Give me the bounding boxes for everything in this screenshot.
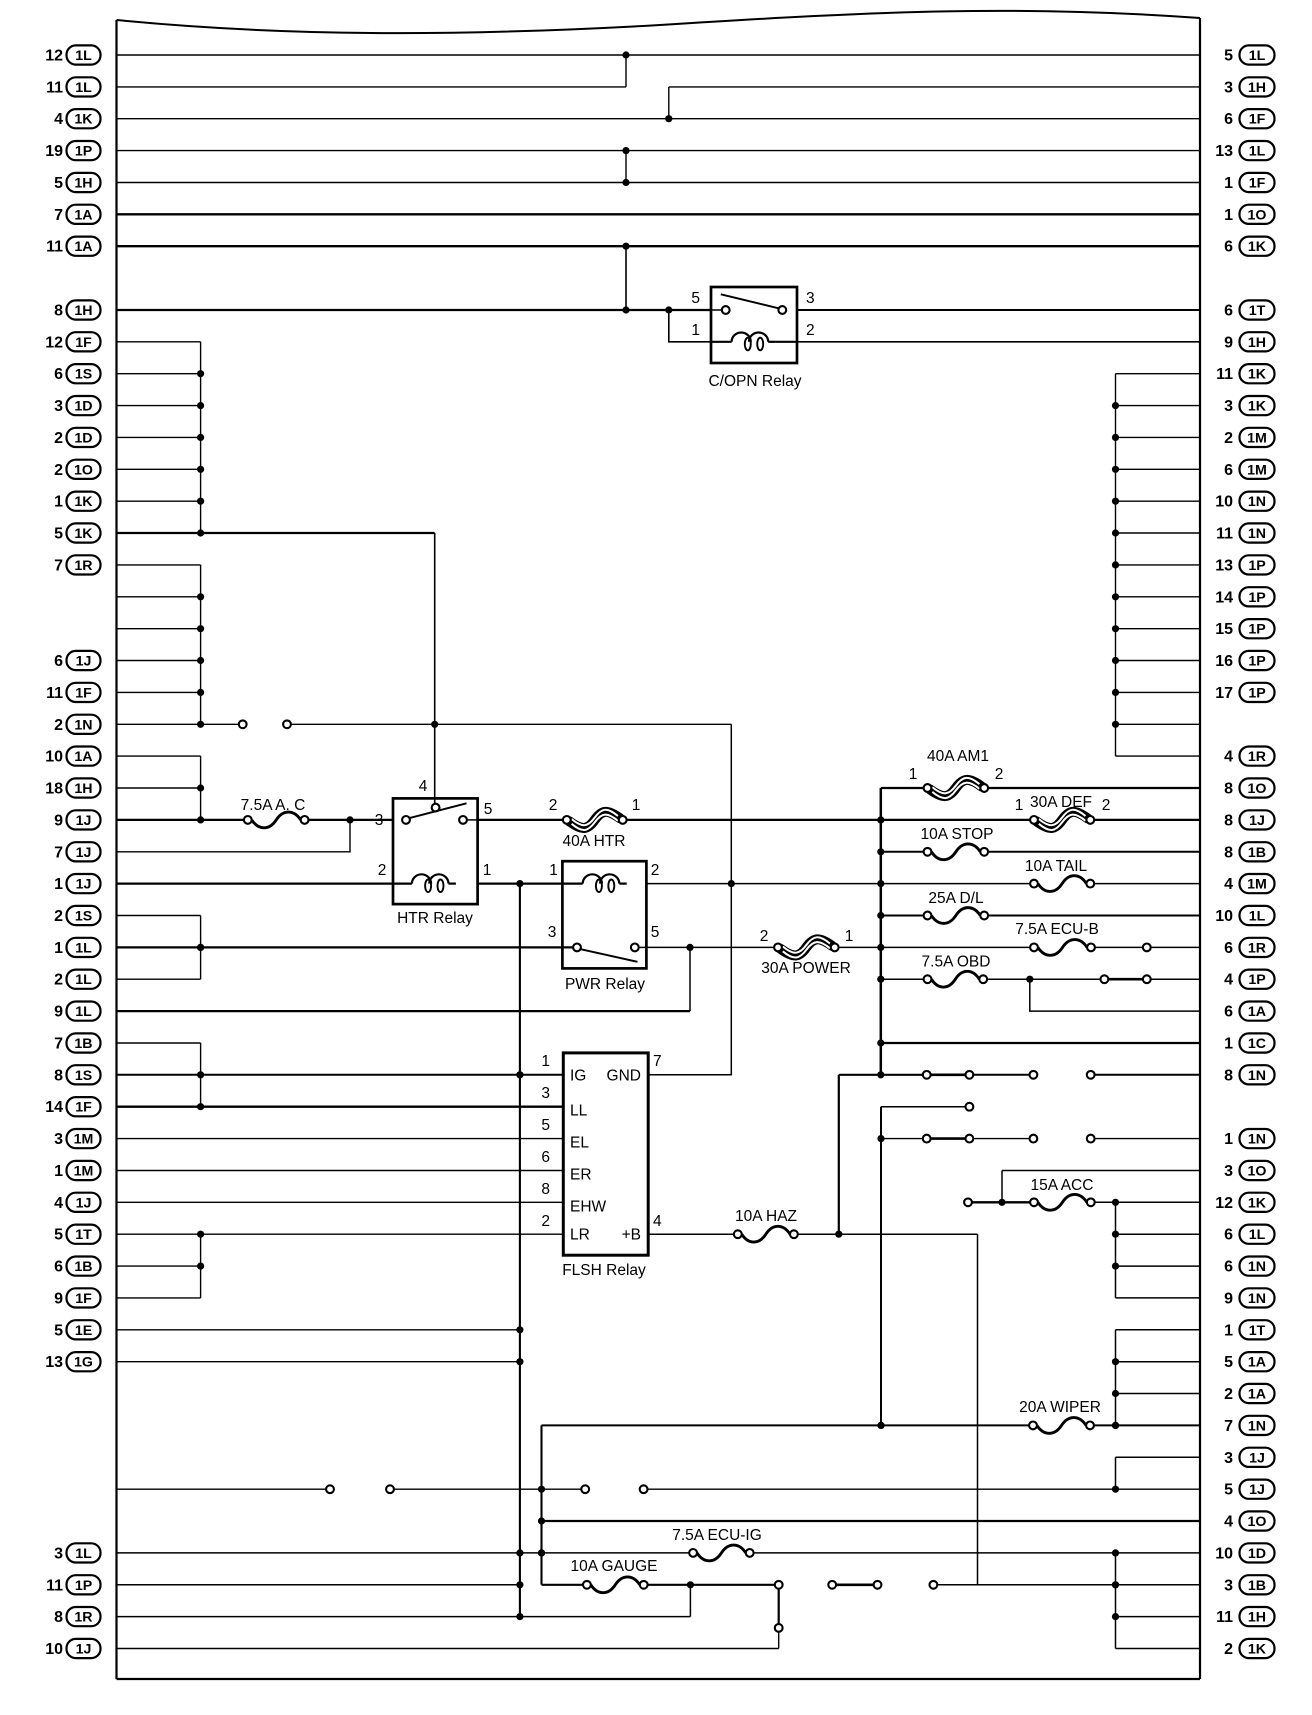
svg-text:2: 2 <box>54 717 63 734</box>
svg-text:3: 3 <box>541 1085 550 1102</box>
wire row 5(1K) to HTR relay pin 4 corner <box>117 532 435 534</box>
node 4(1O) right connector <box>1224 1511 1274 1530</box>
svg-text:1: 1 <box>541 1053 550 1070</box>
wire power bus vertical (40A AM1 feed) <box>877 788 884 1078</box>
node 11(1K) right connector <box>1216 364 1274 383</box>
wire row 3(1B) right segment <box>930 1581 1201 1589</box>
svg-text:10: 10 <box>1215 494 1233 511</box>
svg-text:LL: LL <box>570 1103 588 1120</box>
wire row 11(1K) corner <box>1116 373 1201 375</box>
svg-text:5: 5 <box>691 290 700 307</box>
node 14(1P) right connector <box>1215 587 1274 606</box>
svg-text:1: 1 <box>845 928 854 945</box>
node 11(1F) left connector <box>46 683 100 702</box>
wire 40A AM1 row corner <box>881 787 925 789</box>
node 3(1D) left connector <box>54 396 100 415</box>
svg-text:3: 3 <box>548 924 557 941</box>
node 7(1A) left connector <box>54 205 100 224</box>
label 30A POWER pin 1 <box>845 928 854 945</box>
wire row 3(1M) to FLSH EL <box>117 1138 564 1140</box>
svg-text:1T: 1T <box>1249 303 1266 319</box>
wire relay-coil bus vertical (IG feed) <box>516 884 523 1621</box>
svg-text:10: 10 <box>45 1641 63 1658</box>
svg-text:2: 2 <box>54 430 63 447</box>
node 5(1A) right connector <box>1224 1352 1274 1371</box>
svg-text:13: 13 <box>45 1354 63 1371</box>
svg-text:11: 11 <box>1216 366 1233 383</box>
svg-text:7: 7 <box>54 1036 63 1053</box>
svg-text:1D: 1D <box>74 399 92 415</box>
svg-text:10: 10 <box>45 749 63 766</box>
svg-text:40A AM1: 40A AM1 <box>927 748 989 765</box>
wire row 10(1A) to bus C <box>117 755 201 757</box>
wire vertical 3(1H) down to 4(1K) row <box>668 87 670 119</box>
svg-text:2: 2 <box>760 928 769 945</box>
fuse 40A HTR (fusible link) <box>563 810 627 850</box>
svg-text:30A DEF: 30A DEF <box>1030 794 1092 811</box>
label HTR pin 5 <box>484 801 493 818</box>
wire row unlabeled-2 to bus B <box>117 628 201 630</box>
wire row right 16(1P) <box>1116 660 1201 662</box>
svg-text:20A WIPER: 20A WIPER <box>1019 1399 1101 1416</box>
svg-text:1M: 1M <box>1247 877 1267 893</box>
wire HTR pin5 inside box <box>467 819 478 821</box>
node 6(1K) right connector <box>1224 237 1274 256</box>
svg-text:3: 3 <box>54 1131 63 1148</box>
wire bus D vertical 2(1S)..2(1L) <box>197 916 204 980</box>
wire row 4(1R) corner <box>1116 755 1201 757</box>
wire row 8(1R) <box>117 1616 691 1618</box>
node 8(1O) right connector <box>1224 778 1274 797</box>
fuse 30A DEF (fusible link) <box>1030 794 1094 830</box>
node 10(1J) left connector <box>45 1639 100 1658</box>
fuse 7.5A ECU-B <box>1015 921 1099 955</box>
wire C/OPN pin5 stub <box>711 309 722 311</box>
svg-text:1H: 1H <box>1248 335 1266 351</box>
wire PWR pin 2 to 10A TAIL row <box>646 880 1030 887</box>
svg-text:1H: 1H <box>1248 80 1266 96</box>
label FLSH pin 6 <box>541 1149 550 1166</box>
node 11(1P) left connector <box>46 1575 100 1594</box>
svg-text:5: 5 <box>484 801 493 818</box>
svg-text:5: 5 <box>541 1117 550 1134</box>
wire row 1(1N) segment with connectors <box>881 1135 1200 1143</box>
node 2(1N) left connector <box>54 715 100 734</box>
label FLSH pin 3 <box>541 1085 550 1102</box>
node 10(1A) left connector <box>45 747 100 766</box>
node 8(1H) left connector <box>54 300 100 319</box>
wire row right 13(1P) <box>1116 564 1201 566</box>
svg-text:1D: 1D <box>74 430 92 446</box>
label PWR pin 3 <box>548 924 557 941</box>
svg-text:8: 8 <box>1224 844 1233 861</box>
node 8(1R) left connector <box>54 1607 100 1626</box>
svg-text:2: 2 <box>995 766 1004 783</box>
svg-text:5: 5 <box>54 1322 63 1339</box>
svg-text:1M: 1M <box>1247 430 1267 446</box>
svg-text:11: 11 <box>1216 1609 1233 1626</box>
wire row 1(1C) <box>881 1042 1200 1044</box>
svg-text:1P: 1P <box>1248 622 1265 638</box>
wire FLSH +B to fuse 10A HAZ <box>648 1233 734 1235</box>
label 40A AM1 pin 1 <box>909 766 918 783</box>
svg-text:+B: +B <box>622 1227 641 1244</box>
relay HTR switch blade <box>409 803 467 818</box>
label 40A HTR pin 1 <box>632 797 641 814</box>
svg-text:8: 8 <box>54 1609 63 1626</box>
wire row 5(1A) <box>1116 1361 1201 1363</box>
wire fuse 25A D/L to 10(1L) <box>988 915 1200 917</box>
svg-text:7.5A OBD: 7.5A OBD <box>922 954 991 971</box>
svg-text:3: 3 <box>54 398 63 415</box>
svg-text:7: 7 <box>54 844 63 861</box>
wire row unlabeled-1 to bus B <box>117 596 201 598</box>
relay PWR (box) <box>562 861 646 968</box>
node 5(1L) right connector <box>1224 45 1274 64</box>
svg-text:1B: 1B <box>1248 845 1266 861</box>
node 6(1M) right connector <box>1224 460 1274 479</box>
relay PWR switch blade <box>580 949 638 962</box>
relay PWR pin 5 contact <box>631 944 639 952</box>
relay C/OPN pin 5 contact <box>722 306 730 314</box>
label PWR Relay name <box>565 976 645 993</box>
node 2(1K) right connector <box>1224 1639 1274 1658</box>
svg-text:1J: 1J <box>1249 1450 1265 1466</box>
wire fuse OBD to 4(1P) with connector pair <box>987 975 1200 983</box>
svg-text:1K: 1K <box>1248 367 1267 383</box>
svg-text:1J: 1J <box>76 877 92 893</box>
node 2(1D) left connector <box>54 428 100 447</box>
svg-text:1F: 1F <box>1249 176 1266 192</box>
svg-text:1A: 1A <box>1248 1355 1266 1371</box>
wire row 14(1F) to FLSH LL <box>117 1106 564 1108</box>
svg-text:2: 2 <box>54 908 63 925</box>
svg-text:9: 9 <box>1224 334 1233 351</box>
junction-block border (left edge) <box>115 20 117 1679</box>
node 1(1N) right connector <box>1224 1129 1274 1148</box>
wire vertical ACC branch 12(1K)..9(1N) <box>1112 1202 1119 1298</box>
svg-text:6: 6 <box>1224 1004 1233 1021</box>
node 12(1F) left connector <box>45 332 100 351</box>
svg-text:1O: 1O <box>1248 1514 1267 1530</box>
svg-text:1S: 1S <box>75 909 92 925</box>
svg-text:1L: 1L <box>1249 48 1266 64</box>
node 1(1J) left connector <box>54 874 100 893</box>
node 4(1J) left connector <box>54 1193 100 1212</box>
svg-text:1N: 1N <box>74 717 92 733</box>
svg-text:1: 1 <box>1224 1322 1233 1339</box>
wire row 11(1A)-6(1K) <box>117 243 1201 250</box>
svg-text:1N: 1N <box>1248 1291 1266 1307</box>
wire HAZ net vertical down to 3(1B) row <box>977 1234 979 1585</box>
label FLSH pin 1 <box>541 1053 550 1070</box>
svg-text:4: 4 <box>1224 749 1233 766</box>
svg-text:1P: 1P <box>1248 558 1265 574</box>
node 6(1N) right connector <box>1224 1257 1274 1276</box>
node 12(1L) left connector <box>45 45 100 64</box>
wire row right 3(1K) <box>1116 405 1201 407</box>
svg-text:6: 6 <box>54 366 63 383</box>
label C/OPN pin 1 <box>691 322 700 339</box>
wire row right 11(1N) <box>1116 532 1201 534</box>
svg-text:1P: 1P <box>1248 685 1265 701</box>
wire vertical 3(1J) to 5(1J) <box>1115 1457 1117 1489</box>
wire row 4(1K)-6(1F) <box>117 115 1201 122</box>
relay PWR coil <box>562 874 626 892</box>
wire IG-branch vertical WIPER..GAUGE <box>538 1425 545 1584</box>
svg-text:5: 5 <box>54 1227 63 1244</box>
wire 6(1A) feed vertical <box>1030 979 1200 1011</box>
svg-text:ER: ER <box>570 1167 592 1184</box>
node 6(1A) right connector <box>1224 1002 1274 1021</box>
svg-text:1A: 1A <box>74 207 92 223</box>
wire fuse 40A AM1 to 8(1O) <box>987 787 1200 789</box>
svg-text:10A STOP: 10A STOP <box>921 826 994 843</box>
wire bus B vertical 7(1R)..2(1N) <box>197 565 204 728</box>
svg-text:19: 19 <box>45 143 63 160</box>
node 7(1R) left connector <box>54 555 100 574</box>
label FLSH pin 5 <box>541 1117 550 1134</box>
svg-text:7.5A ECU-IG: 7.5A ECU-IG <box>672 1527 762 1544</box>
fuse 30A POWER (fusible link) <box>761 937 851 977</box>
node 6(1L) right connector <box>1224 1225 1274 1244</box>
svg-text:4: 4 <box>1224 1514 1233 1531</box>
svg-text:1N: 1N <box>1248 494 1266 510</box>
svg-text:5: 5 <box>1224 48 1233 65</box>
wire row right 6(1M) <box>1116 468 1201 470</box>
svg-text:1K: 1K <box>1248 399 1267 415</box>
svg-text:1J: 1J <box>76 845 92 861</box>
node 2(1S) left connector <box>54 906 100 925</box>
wire row 7(1J) up to 9(1J) row <box>117 820 351 852</box>
svg-text:16: 16 <box>1215 653 1233 670</box>
svg-text:IG: IG <box>570 1067 586 1084</box>
wire fuse 30A POWER to ECU-B fuse <box>838 944 1030 951</box>
wire row 3(1J) corner <box>1116 1456 1201 1458</box>
wire row 6(1S) to bus A <box>117 373 201 375</box>
fuse 15A ACC <box>1030 1177 1095 1210</box>
node 9(1H) right connector <box>1224 332 1274 351</box>
svg-text:1P: 1P <box>1248 972 1265 988</box>
wire row 3(1L)-10(1D) with fuse ECU-IG <box>117 1549 690 1556</box>
node 6(1F) right connector <box>1224 109 1274 128</box>
node 7(1B) left connector <box>54 1033 100 1052</box>
svg-text:1O: 1O <box>1248 207 1267 223</box>
svg-text:5: 5 <box>651 924 660 941</box>
label PWR pin 2 <box>651 862 660 879</box>
wire row 3(1D) to bus A <box>117 405 201 407</box>
node 11(1L) left connector <box>46 77 100 96</box>
wire row right 14(1P) <box>1116 596 1201 598</box>
wire row 3(1H) from junction <box>669 86 1200 88</box>
svg-text:1N: 1N <box>1248 1132 1266 1148</box>
wire vertical 1(1N) bus <box>877 1107 884 1429</box>
svg-text:1P: 1P <box>75 1578 92 1594</box>
svg-text:1: 1 <box>1224 207 1233 224</box>
svg-text:1P: 1P <box>75 144 92 160</box>
svg-text:1L: 1L <box>75 1546 92 1562</box>
wire row 5(1E) to coil bus <box>117 1329 520 1331</box>
svg-text:6: 6 <box>1224 303 1233 320</box>
svg-text:1F: 1F <box>75 335 92 351</box>
node 6(1J) left connector <box>54 651 100 670</box>
node 8(1B) right connector <box>1224 842 1274 861</box>
junction-block border (right edge) <box>1199 18 1201 1679</box>
wire ground vertical 2(1N) row to FLSH GND <box>648 724 735 1075</box>
node 1(1M) left connector <box>54 1161 100 1180</box>
svg-text:10: 10 <box>1215 1545 1233 1562</box>
node 4(1K) left connector <box>54 109 100 128</box>
svg-text:1H: 1H <box>74 303 92 319</box>
svg-text:GND: GND <box>607 1067 641 1084</box>
wire row 12(1L)-5(1L) <box>117 51 1201 58</box>
fuse 7.5A A. C <box>241 797 309 828</box>
label HTR pin 3 <box>375 812 384 829</box>
svg-text:8: 8 <box>1224 812 1233 829</box>
svg-text:2: 2 <box>54 462 63 479</box>
svg-text:1K: 1K <box>1248 1195 1267 1211</box>
label FLSH EL <box>570 1135 589 1152</box>
fuse 20A WIPER <box>1019 1399 1101 1433</box>
svg-text:25A D/L: 25A D/L <box>928 890 984 907</box>
svg-text:6: 6 <box>1224 940 1233 957</box>
node 8(1S) left connector <box>54 1065 100 1084</box>
svg-text:7: 7 <box>653 1053 662 1070</box>
svg-text:EHW: EHW <box>570 1198 607 1215</box>
wire row 2(1D) to bus A <box>117 436 201 438</box>
wire row 11(1L) to junction <box>117 86 627 88</box>
wire FLSH GND corner segment <box>648 1074 731 1076</box>
svg-text:3: 3 <box>1224 1577 1233 1594</box>
svg-text:4: 4 <box>54 111 63 128</box>
svg-text:2: 2 <box>1102 797 1111 814</box>
svg-text:1N: 1N <box>1248 526 1266 542</box>
node 13(1L) right connector <box>1215 141 1274 160</box>
node 2(1O) left connector <box>54 460 100 479</box>
svg-text:1L: 1L <box>1249 144 1266 160</box>
relay FLSH (box) <box>563 1053 648 1255</box>
node 6(1T) right connector <box>1224 300 1274 319</box>
svg-text:1M: 1M <box>1247 462 1267 478</box>
wire row 6(1J) to bus B <box>117 660 201 662</box>
wire HTR pin 5 to fuse 40A HTR <box>478 819 564 821</box>
svg-text:1K: 1K <box>1248 239 1267 255</box>
node 17(1P) right connector <box>1215 683 1274 702</box>
fuse 10A TAIL <box>1025 858 1094 891</box>
wire vertical HTR pin 4 feed <box>431 533 438 804</box>
wire vertical GAUGE junction to 8(1R) row <box>689 1585 691 1617</box>
wire 10A STOP row <box>881 851 924 853</box>
node 11(1H) right connector <box>1216 1607 1274 1626</box>
wire row 5(1J) with connectors <box>117 1485 1201 1493</box>
node 12(1K) right connector <box>1215 1193 1274 1212</box>
svg-text:1A: 1A <box>74 239 92 255</box>
svg-text:1E: 1E <box>75 1323 92 1339</box>
svg-text:1A: 1A <box>1248 1004 1266 1020</box>
node 13(1P) right connector <box>1215 555 1274 574</box>
wire row 6(1N) <box>1116 1265 1201 1267</box>
wire 7.5A OBD row <box>881 978 924 980</box>
wire row 6(1B) to bus F <box>117 1265 201 1267</box>
relay HTR pin 3 contact <box>402 816 410 824</box>
wire row 7(1A)-1(1O) <box>117 213 1201 215</box>
wire row 13(1G) to coil bus <box>117 1361 520 1363</box>
svg-text:1: 1 <box>54 1163 63 1180</box>
svg-text:1J: 1J <box>1249 813 1265 829</box>
svg-text:13: 13 <box>1215 557 1233 574</box>
svg-text:1R: 1R <box>1248 749 1266 765</box>
node 14(1F) left connector <box>45 1097 100 1116</box>
relay PWR pin 3 contact <box>573 944 581 952</box>
node 1(1F) right connector <box>1224 173 1274 192</box>
node 2(1A) right connector <box>1224 1384 1274 1403</box>
relay HTR pin 4 contact <box>432 804 440 812</box>
svg-text:8: 8 <box>1224 1067 1233 1084</box>
svg-text:1J: 1J <box>76 1642 92 1658</box>
svg-text:6: 6 <box>1224 1227 1233 1244</box>
wire row short stub to connector (below 8(1N)) <box>881 1103 973 1111</box>
label C/OPN Relay name <box>708 373 801 390</box>
node 9(1N) right connector <box>1224 1288 1274 1307</box>
fuse 7.5A OBD <box>922 954 991 988</box>
wire vertical 11(1A) down to 8(1H) row <box>625 246 627 310</box>
node 6(1R) right connector <box>1224 938 1274 957</box>
label FLSH LL <box>570 1103 588 1120</box>
svg-text:5: 5 <box>1224 1354 1233 1371</box>
node 3(1H) right connector <box>1224 77 1274 96</box>
label 30A DEF pin 2 <box>1102 797 1111 814</box>
svg-text:3: 3 <box>1224 1450 1233 1467</box>
svg-text:1L: 1L <box>1249 1227 1266 1243</box>
svg-text:14: 14 <box>45 1099 63 1116</box>
node 3(1L) left connector <box>54 1543 100 1562</box>
svg-text:3: 3 <box>1224 398 1233 415</box>
wire fuse A.C to HTR pin 3 <box>309 816 394 823</box>
node 13(1G) left connector <box>45 1352 100 1371</box>
wire row right 15(1P) <box>1116 628 1201 630</box>
node 5(1H) left connector <box>54 173 100 192</box>
node 2(1L) left connector <box>54 970 100 989</box>
wire row 8(1N) segment with connectors <box>839 1071 1200 1079</box>
label FLSH IG <box>570 1067 586 1084</box>
node 10(1L) right connector <box>1215 906 1274 925</box>
fuse 40A AM1 (fusible link) <box>924 748 989 798</box>
wire row 4(1J) to FLSH EHW <box>117 1201 564 1203</box>
wire C/OPN pin 1 jog to 8(1H) row <box>669 310 711 342</box>
wire row 6(1L) <box>1116 1233 1201 1235</box>
node 7(1N) right connector <box>1224 1416 1274 1435</box>
wire row 8(1H) to C/OPN relay pin 5 <box>117 306 712 313</box>
svg-text:LR: LR <box>570 1227 590 1244</box>
wire row 9(1N) <box>1116 1297 1201 1299</box>
node 3(1J) right connector <box>1224 1448 1274 1467</box>
svg-text:1: 1 <box>54 940 63 957</box>
relay HTR coil <box>393 874 456 892</box>
svg-text:7.5A A. C: 7.5A A. C <box>241 797 306 814</box>
svg-text:1: 1 <box>1015 797 1024 814</box>
wire fuse HAZ to corner <box>798 1231 978 1238</box>
wire row right 10(1N) <box>1116 500 1201 502</box>
node 5(1K) left connector <box>54 523 100 542</box>
wire fuse ECU-IG to 10(1D) <box>754 1549 1200 1556</box>
svg-text:1L: 1L <box>75 1004 92 1020</box>
label HTR pin 1 <box>483 862 492 879</box>
wire PWR pin 5 to fuse 30A POWER <box>646 944 774 951</box>
wire row 1(1J) to HTR pin 2 <box>117 882 394 884</box>
label PWR pin 5 <box>651 924 660 941</box>
wire row 2(1O) to bus A <box>117 468 201 470</box>
svg-text:10: 10 <box>1215 908 1233 925</box>
